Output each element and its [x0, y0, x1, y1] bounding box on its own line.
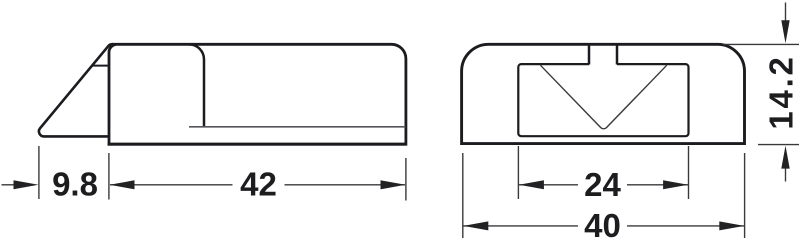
- svg-text:40: 40: [584, 207, 621, 240]
- svg-text:42: 42: [240, 165, 277, 202]
- svg-text:14.2: 14.2: [763, 57, 800, 129]
- svg-text:9.8: 9.8: [52, 165, 98, 202]
- svg-text:24: 24: [584, 166, 621, 203]
